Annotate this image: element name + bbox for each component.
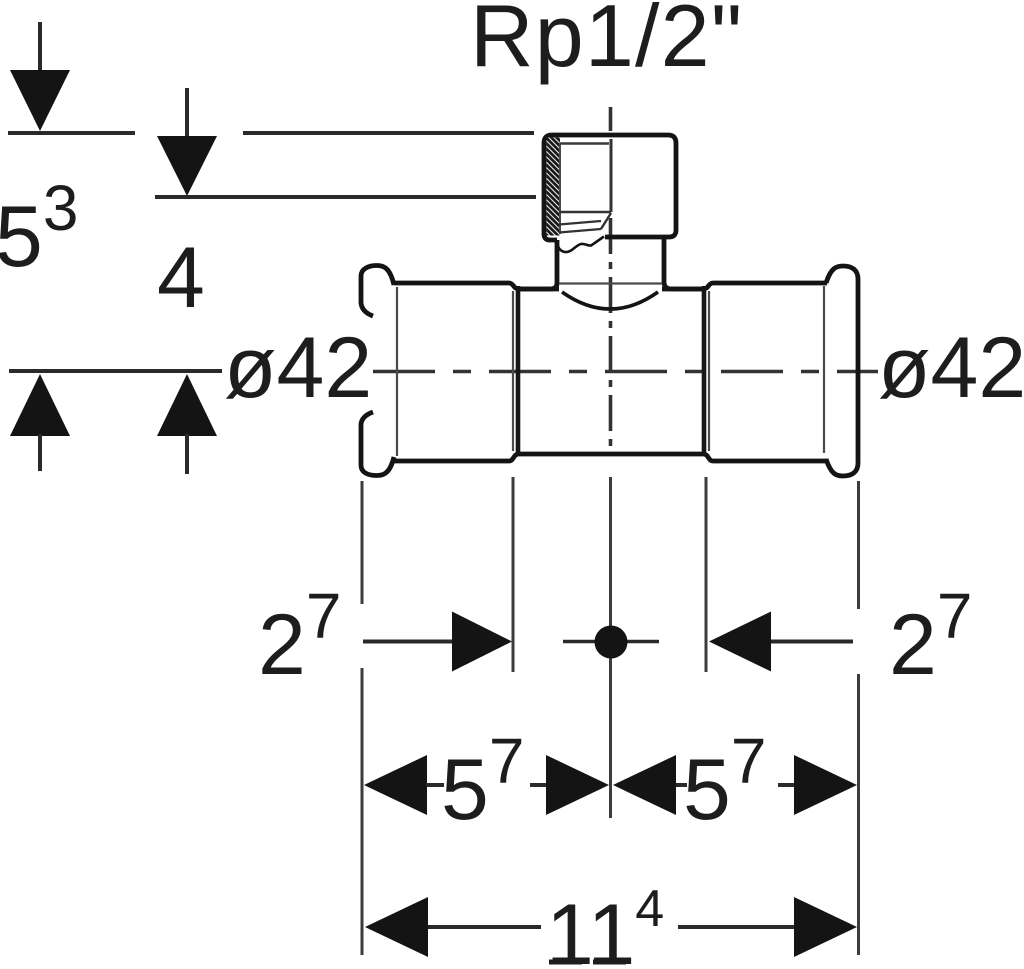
centre line vertical lower solid xyxy=(609,477,612,818)
svg-text:4: 4 xyxy=(157,230,205,326)
branch opening arc xyxy=(562,292,658,309)
dim 5.7 right arrows xyxy=(613,755,857,815)
tee body outline top left xyxy=(394,283,559,289)
serif foot of second 1 xyxy=(593,960,626,965)
centre line vertical top dash xyxy=(609,107,613,131)
dim line top of fitting left segment xyxy=(8,131,135,135)
dim line centre axis left xyxy=(9,369,222,373)
dim arrow up A3 xyxy=(10,374,70,471)
branch neck left edge xyxy=(516,240,557,289)
dim 2.7 left arrow xyxy=(363,612,512,672)
dim line top of fitting right segment xyxy=(243,131,534,135)
thread face line xyxy=(559,143,561,234)
dim arrow down A2 xyxy=(157,88,217,196)
dim 2.7 right arrow xyxy=(709,612,853,672)
extension line right insertion xyxy=(705,477,708,672)
svg-text:ø42: ø42 xyxy=(878,320,1024,416)
thread runout line A xyxy=(559,221,601,225)
right press bead xyxy=(826,266,858,476)
cavity top line xyxy=(560,142,609,145)
left press bead top hook xyxy=(361,266,394,317)
dim arrow up A4 xyxy=(157,374,217,474)
serif foot of first 1 xyxy=(549,960,582,965)
cavity bottom line xyxy=(559,211,611,214)
right socket shoulder thick line xyxy=(702,286,707,455)
left insertion depth line thin xyxy=(512,291,514,451)
extension line left outer xyxy=(361,481,364,955)
left mouth rim line xyxy=(396,287,398,456)
left socket shoulder thick line xyxy=(516,286,521,455)
right mouth rim line xyxy=(823,286,825,453)
extension line right outer xyxy=(857,481,860,955)
dim 5.7 left arrows xyxy=(364,755,609,815)
branch neck right edge xyxy=(664,237,705,289)
dim line thread plane xyxy=(155,195,536,199)
centre line horizontal xyxy=(373,370,878,374)
right insertion depth line thin xyxy=(708,291,710,451)
centre line vertical mid dash-dot xyxy=(609,218,613,455)
extension line left insertion xyxy=(512,477,515,672)
centre mark dot xyxy=(563,626,659,659)
threaded socket outline xyxy=(544,135,676,240)
dim arrow down A1 xyxy=(10,22,70,131)
thread runout diagonal xyxy=(601,213,611,229)
cavity centre edge xyxy=(610,139,613,212)
neck break wavy line xyxy=(558,237,604,253)
branch thin crossing line xyxy=(559,282,662,284)
left press bead bottom hook xyxy=(361,412,394,476)
tee body outline bottom xyxy=(394,454,827,461)
thread hatch band xyxy=(547,138,561,236)
svg-text:ø42: ø42 xyxy=(224,320,372,416)
svg-text:Rp1/2": Rp1/2" xyxy=(470,0,743,85)
dim 11.4 arrows xyxy=(365,897,857,957)
thread runout line B xyxy=(559,229,601,233)
tee body outline top right xyxy=(662,283,827,289)
